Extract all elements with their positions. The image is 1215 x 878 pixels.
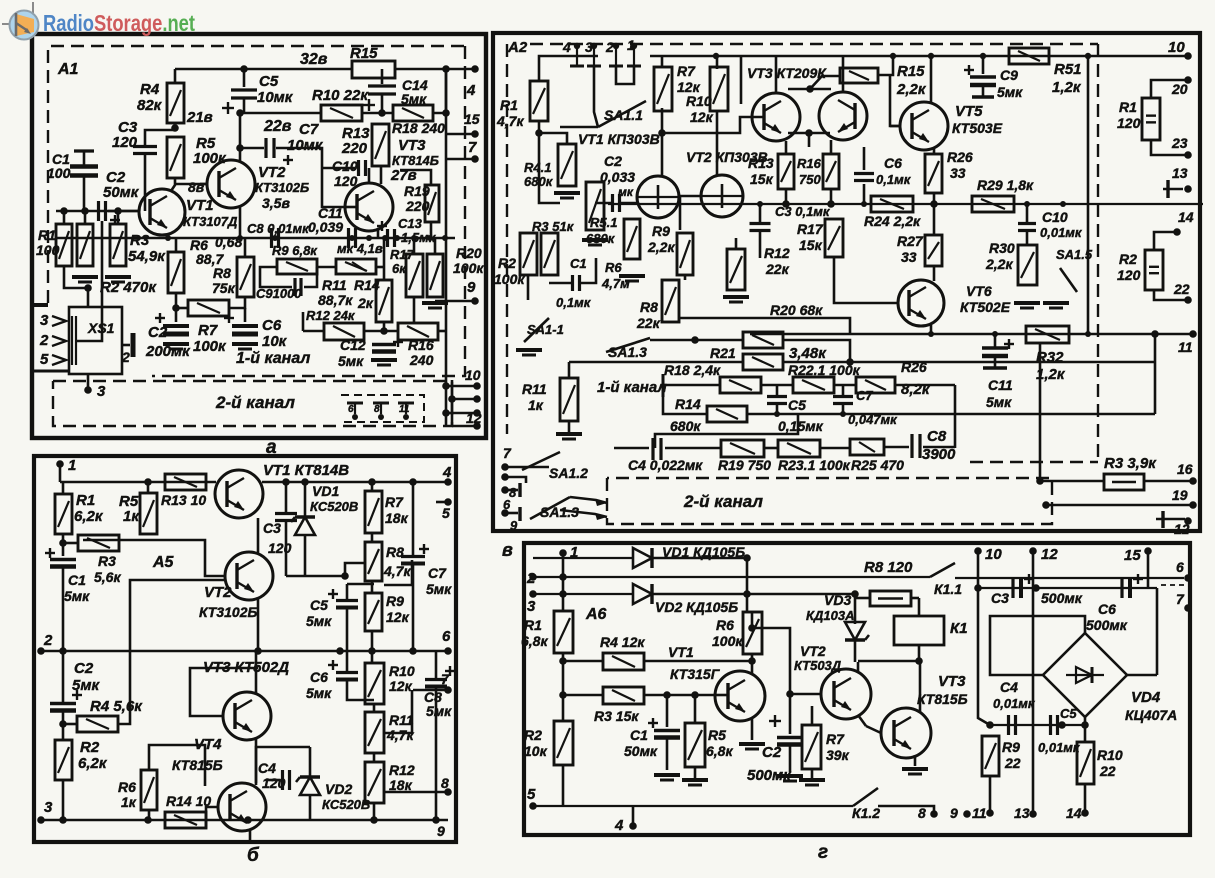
wire R1v top xyxy=(539,56,598,81)
terminal 8 panel b xyxy=(444,788,452,796)
svg-text:10мк: 10мк xyxy=(257,89,294,106)
svg-text:R2: R2 xyxy=(80,739,100,756)
ground under C2-200 xyxy=(163,344,189,349)
wire C9 down xyxy=(982,85,985,97)
wire C1v left xyxy=(549,282,572,285)
capacitor C6 panel a xyxy=(232,326,258,334)
svg-text:6,2к: 6,2к xyxy=(78,755,108,772)
wire bridge top xyxy=(1043,616,1085,633)
wire C2v left xyxy=(595,202,612,205)
svg-text:6: 6 xyxy=(348,404,354,415)
wire chain 2 xyxy=(371,581,374,593)
node R2-XS1 xyxy=(84,284,92,292)
wire R2v bottom xyxy=(527,275,530,300)
wire C3 stem xyxy=(285,482,288,512)
resistor R7 panel g xyxy=(802,725,821,769)
wire XS1 to C2 xyxy=(76,221,102,341)
plus sign C2 xyxy=(110,219,120,221)
junction v top bus xyxy=(928,53,934,59)
plus sign C7 xyxy=(283,159,293,161)
svg-text:5мк: 5мк xyxy=(997,84,1023,100)
terminal 2 top panel v xyxy=(613,43,619,49)
svg-text:КТ3102Б: КТ3102Б xyxy=(255,180,309,195)
svg-text:200мк: 200мк xyxy=(145,343,191,360)
svg-text:18к: 18к xyxy=(389,777,413,793)
wire C7v down xyxy=(842,404,845,414)
svg-text:2: 2 xyxy=(605,39,614,55)
svg-text:VT3: VT3 xyxy=(938,673,966,690)
resistor R9 panel v xyxy=(677,233,693,275)
wire caprow right xyxy=(1156,588,1159,675)
svg-text:2,2к: 2,2к xyxy=(896,81,927,98)
svg-text:11: 11 xyxy=(972,805,987,821)
svg-text:R19 750: R19 750 xyxy=(718,457,771,473)
wire R9 bottom link xyxy=(260,267,292,287)
wire C4 left xyxy=(266,779,280,782)
wire VT3g collector xyxy=(919,661,922,712)
wire R9 bottom xyxy=(684,275,687,280)
resistor R3 xyxy=(110,224,126,266)
svg-text:R11: R11 xyxy=(322,277,347,293)
svg-text:15: 15 xyxy=(1124,547,1141,564)
svg-text:7: 7 xyxy=(1176,591,1185,607)
svg-text:R3 15к: R3 15к xyxy=(594,708,639,724)
resistor R29 xyxy=(972,196,1014,212)
wire VT2b collector xyxy=(257,518,260,554)
svg-text:RadioStorage.net: RadioStorage.net xyxy=(43,10,195,36)
svg-text:2: 2 xyxy=(43,632,53,649)
wire vt34 mid xyxy=(808,133,811,147)
wire VD3 g bus3 ext xyxy=(747,593,855,596)
svg-text:2,2к: 2,2к xyxy=(647,239,675,255)
svg-text:8в: 8в xyxy=(188,179,205,195)
junction v mid bus xyxy=(861,201,867,207)
svg-text:R14 10: R14 10 xyxy=(166,793,211,809)
junction main bus xyxy=(366,235,372,241)
wire brow e xyxy=(923,446,955,449)
svg-text:5: 5 xyxy=(40,351,49,368)
svg-text:VT1: VT1 xyxy=(186,197,214,214)
node R1g-R3 xyxy=(559,691,567,699)
svg-text:22: 22 xyxy=(1173,281,1190,297)
wire t10 down xyxy=(978,551,990,725)
wire terminal 15 stub xyxy=(446,133,475,136)
wire R3 left xyxy=(63,542,78,545)
svg-text:1к: 1к xyxy=(123,508,140,525)
svg-text:КТ815Б: КТ815Б xyxy=(172,757,223,773)
svg-text:R3: R3 xyxy=(98,553,116,569)
resistor R7 panel b xyxy=(365,491,382,533)
svg-text:С3 0,1мк: С3 0,1мк xyxy=(775,204,831,219)
wire main bus xyxy=(56,237,455,239)
wire SA1.1 link xyxy=(560,126,598,129)
capacitor C2 panel b xyxy=(50,704,76,711)
wire R1g col xyxy=(562,553,565,611)
capacitor C13 xyxy=(388,229,395,247)
wire br1 xyxy=(446,385,477,388)
transistor VT3 panel b xyxy=(223,692,271,740)
capacitor C7 xyxy=(266,138,274,158)
wire VT5 collector xyxy=(930,56,933,102)
node R18 right xyxy=(442,109,450,117)
wire C3v stem xyxy=(759,204,762,223)
node br c1 xyxy=(442,409,450,417)
node row1 left xyxy=(691,336,699,344)
svg-text:120: 120 xyxy=(1117,267,1141,283)
wire terminal 3 drop xyxy=(594,66,598,127)
terminal 4 panel a xyxy=(471,65,479,73)
terminal 11 v xyxy=(1189,330,1197,338)
wire C14 stem xyxy=(381,69,384,84)
svg-text:32в: 32в xyxy=(300,51,328,68)
wire C7b bottom xyxy=(412,564,415,651)
svg-text:3: 3 xyxy=(585,39,593,55)
svg-text:R7: R7 xyxy=(385,494,404,510)
wire C5v stem xyxy=(776,385,779,396)
wire tap to R8 xyxy=(345,563,364,576)
wire R11 top xyxy=(568,362,571,378)
plus sign C7b xyxy=(419,548,429,550)
junction main bus xyxy=(349,235,355,241)
svg-text:3: 3 xyxy=(527,598,536,615)
svg-text:R1: R1 xyxy=(500,97,518,113)
svg-text:5,6к: 5,6к xyxy=(94,569,121,585)
wire VT1g emitter xyxy=(751,718,754,740)
junction v mid bus xyxy=(1060,201,1066,207)
node g9 xyxy=(963,810,971,818)
svg-text:SA1.2: SA1.2 xyxy=(549,465,588,481)
terminal 23 xyxy=(1184,151,1192,159)
resistor R19 panel v xyxy=(721,440,764,457)
svg-text:120: 120 xyxy=(262,775,286,791)
svg-text:VT5: VT5 xyxy=(955,103,983,120)
wire C6b top xyxy=(346,651,349,672)
svg-text:750: 750 xyxy=(799,172,821,187)
wire term8b xyxy=(505,489,518,492)
wire R4g right xyxy=(644,660,727,663)
wire vt4 top xyxy=(842,56,845,92)
wire terminal 2 drop xyxy=(616,66,634,84)
svg-text:R1: R1 xyxy=(76,492,95,509)
wire C10 left xyxy=(322,167,355,170)
wire C6v down xyxy=(863,184,866,204)
svg-text:VT3: VT3 xyxy=(398,137,426,154)
resistor R25 xyxy=(850,439,884,455)
wire fet2 drain xyxy=(716,110,719,175)
wire vt3-vt4 base rail xyxy=(788,88,831,91)
svg-text:22: 22 xyxy=(1004,755,1021,771)
wire R7 top xyxy=(661,56,664,68)
node c5 row4 xyxy=(774,411,780,417)
wire R10-R18 xyxy=(362,112,393,115)
resistor R4 xyxy=(167,83,184,123)
svg-text:R17: R17 xyxy=(797,221,824,237)
wire to R3 xyxy=(1040,480,1104,483)
logo globe icon xyxy=(2,2,39,40)
svg-text:VT3 КТ209К: VT3 КТ209К xyxy=(747,65,827,81)
wire R7 right xyxy=(229,297,245,308)
node R1-R3 xyxy=(59,539,67,547)
wire row2 right xyxy=(783,361,1155,364)
svg-text:6: 6 xyxy=(1176,559,1184,575)
wire after K12 xyxy=(878,806,934,814)
junction main bus xyxy=(394,235,400,241)
svg-text:50мк: 50мк xyxy=(103,184,140,201)
resistor R30 xyxy=(1018,245,1037,285)
resistor R2 panel v xyxy=(520,233,537,275)
svg-text:R29 1,8к: R29 1,8к xyxy=(977,177,1034,193)
capacitor C1 xyxy=(70,167,98,176)
svg-text:19: 19 xyxy=(1172,487,1188,503)
bar under C11v xyxy=(983,366,1007,370)
wire C14 down xyxy=(381,94,384,113)
svg-text:КТ3107Д: КТ3107Д xyxy=(183,214,238,229)
svg-text:R30: R30 xyxy=(989,240,1015,256)
trimmer dot xyxy=(352,414,358,420)
resistor R32 xyxy=(1026,326,1069,343)
svg-text:10: 10 xyxy=(985,546,1002,563)
wire R32 down xyxy=(1039,343,1042,481)
svg-text:С2: С2 xyxy=(762,744,782,761)
capacitor C2 panel v xyxy=(613,194,620,212)
resistor R16 panel v xyxy=(823,154,839,189)
node 628 xyxy=(748,624,756,632)
svg-text:6: 6 xyxy=(503,497,511,512)
wire R20 row xyxy=(680,318,850,334)
svg-text:К1.2: К1.2 xyxy=(852,805,880,821)
svg-text:1: 1 xyxy=(68,457,76,474)
wire R4 left xyxy=(63,723,77,726)
svg-text:12: 12 xyxy=(1174,521,1190,537)
svg-text:4,7м: 4,7м xyxy=(601,276,630,291)
wire R1 top stub xyxy=(63,211,66,224)
svg-text:8: 8 xyxy=(441,775,449,791)
terminal 6 bar xyxy=(518,507,521,521)
plus sign C3g xyxy=(1024,578,1034,580)
wire C5 to mid xyxy=(244,98,321,113)
module A1 dashed border xyxy=(48,46,465,303)
svg-text:14: 14 xyxy=(1066,805,1082,821)
svg-text:С2: С2 xyxy=(604,153,622,169)
terminal 15 panel a xyxy=(471,130,479,138)
wire VT1g base xyxy=(715,694,727,697)
svg-text:С5: С5 xyxy=(259,73,279,90)
node R1g-R4 xyxy=(559,657,567,665)
wire v low bus xyxy=(750,333,1193,335)
wire K1.2 arm xyxy=(853,788,878,806)
terminal 5 panel b xyxy=(444,498,452,506)
wire C2g stem xyxy=(789,694,792,734)
node br a1 xyxy=(442,382,450,390)
wire C10 down xyxy=(1026,231,1029,245)
resistor R3 panel g xyxy=(603,687,644,704)
capacitor C10 panel v xyxy=(1018,224,1036,231)
connector pin arrow 5 xyxy=(52,355,66,365)
wire term7 stub xyxy=(413,689,448,692)
wire VT3a emitter xyxy=(377,228,380,238)
ground under C12 xyxy=(371,360,397,365)
node R6-R7 xyxy=(172,304,180,312)
terminal 4 pin xyxy=(576,46,578,66)
svg-text:100: 100 xyxy=(36,242,60,258)
svg-text:R18 240: R18 240 xyxy=(392,120,445,136)
wire bias rail xyxy=(56,210,139,213)
svg-text:R10: R10 xyxy=(389,663,415,679)
terminal 2 g dot xyxy=(529,573,537,581)
wire SA1.3 arm xyxy=(606,338,650,352)
wire after K1.1 xyxy=(955,577,1184,579)
svg-text:R51: R51 xyxy=(1054,61,1082,78)
svg-text:R2: R2 xyxy=(498,255,516,271)
junction v top bus xyxy=(1085,53,1091,59)
junction v low bus xyxy=(992,331,998,337)
svg-text:120: 120 xyxy=(112,134,138,151)
svg-text:С1: С1 xyxy=(630,727,648,743)
wire C6 stem xyxy=(244,308,247,322)
svg-text:11: 11 xyxy=(399,404,410,415)
svg-text:13: 13 xyxy=(1172,165,1188,181)
node bottom b xyxy=(144,816,152,824)
svg-text:R9: R9 xyxy=(652,223,670,239)
svg-text:500мк: 500мк xyxy=(1086,617,1128,633)
panel b border xyxy=(34,456,456,842)
resistor R17 panel v xyxy=(825,219,843,257)
svg-text:0,15мк: 0,15мк xyxy=(778,418,824,434)
resistor R13 xyxy=(372,124,389,166)
svg-text:0,1мк: 0,1мк xyxy=(876,172,912,187)
wire C2b bottom xyxy=(62,711,65,740)
capacitor C12 xyxy=(372,345,396,352)
connector XS1 box xyxy=(69,307,122,374)
svg-text:R10: R10 xyxy=(686,93,712,109)
wire R41 top xyxy=(539,133,567,144)
resistor R11 panel v xyxy=(560,378,578,421)
wire g bus3 xyxy=(533,593,632,595)
wire C3 bottom xyxy=(285,521,288,576)
svg-text:С3: С3 xyxy=(991,590,1009,606)
terminal 4 panel b xyxy=(444,478,452,486)
ground under R4.1 xyxy=(554,193,580,198)
resistor R2 panel b xyxy=(55,740,72,780)
svg-text:R4: R4 xyxy=(140,81,160,98)
wire VT4 emitter xyxy=(249,829,252,842)
capacitor C7 panel v xyxy=(833,397,853,404)
wire row3 b xyxy=(761,384,793,387)
terminal 7 v xyxy=(501,463,509,471)
capacitor C6 panel v xyxy=(854,174,874,181)
terminal 22 xyxy=(1184,296,1192,304)
node VD12 xyxy=(743,590,751,598)
module A2 dashed border xyxy=(506,44,508,434)
svg-text:R9: R9 xyxy=(386,593,404,609)
resistor R19 panel a xyxy=(425,185,439,222)
svg-text:VT6: VT6 xyxy=(966,283,992,299)
junction v mid bus xyxy=(757,201,763,207)
svg-text:220: 220 xyxy=(341,140,368,157)
resistor R17 panel a xyxy=(406,254,423,297)
svg-text:КТ503Е: КТ503Е xyxy=(952,120,1003,136)
svg-text:5: 5 xyxy=(527,786,536,803)
capacitor C3 panel g xyxy=(1013,578,1021,598)
node br a2 xyxy=(473,382,481,390)
wire VT4b base xyxy=(206,807,218,828)
resistor R6 4.7m xyxy=(624,219,640,259)
plus sign C6a xyxy=(224,317,234,319)
svg-text:R4 5,6к: R4 5,6к xyxy=(90,698,143,715)
svg-text:С2: С2 xyxy=(74,660,94,677)
svg-text:С1: С1 xyxy=(68,572,86,588)
wire R1v bottom xyxy=(538,121,541,133)
svg-text:6,8к: 6,8к xyxy=(706,743,733,759)
svg-text:220: 220 xyxy=(405,198,430,214)
trimmer cap symbol xyxy=(347,402,363,405)
plus sign C6b xyxy=(328,664,338,666)
ground under R20b xyxy=(422,303,448,308)
svg-text:13: 13 xyxy=(1014,805,1030,821)
module 2nd channel v dashed box xyxy=(607,478,1052,524)
wire zener row xyxy=(286,575,345,578)
wire R12-C12 xyxy=(364,330,398,333)
wire base rail to R15 xyxy=(810,76,840,89)
resistor R8 panel g xyxy=(870,591,911,606)
svg-text:R8 120: R8 120 xyxy=(864,559,913,576)
svg-text:R7: R7 xyxy=(826,731,845,747)
wire VD3 top xyxy=(854,594,857,624)
node r16 bus xyxy=(827,200,835,208)
wire right rows vertical xyxy=(1154,334,1157,414)
wire C10 to base xyxy=(368,168,371,183)
svg-text:680к: 680к xyxy=(670,418,701,434)
wire VT5 emitter xyxy=(933,147,936,154)
junction main bus xyxy=(272,235,278,241)
terminal 11 g dot xyxy=(986,809,994,817)
transistor VT3 panel v xyxy=(752,93,800,141)
svg-text:R21: R21 xyxy=(710,345,736,361)
resistor R20b panel a xyxy=(427,254,443,297)
svg-text:С11: С11 xyxy=(988,377,1013,393)
wire R16 top xyxy=(830,140,833,154)
connector pin arrow 3 xyxy=(52,316,66,326)
wire gate bus xyxy=(539,133,560,203)
extra slash R11 xyxy=(352,262,366,271)
svg-text:R4 12к: R4 12к xyxy=(600,634,645,650)
svg-text:R2: R2 xyxy=(1119,251,1137,267)
wire R9g down xyxy=(989,776,992,813)
wire C9 stem xyxy=(982,56,985,74)
capacitor C8 panel b xyxy=(425,680,447,687)
plus sign C8b xyxy=(445,670,455,672)
resistor R8 panel b xyxy=(365,542,382,581)
wire R14 top xyxy=(383,238,386,280)
plus sign C2b xyxy=(72,694,82,696)
resistor R3 3.9k xyxy=(1104,474,1144,490)
wire C10 stem xyxy=(1026,204,1029,223)
svg-text:б: б xyxy=(247,845,260,866)
wire R17 bottom xyxy=(834,257,897,303)
svg-text:5мк: 5мк xyxy=(426,703,452,719)
resistor R14 panel b xyxy=(165,812,206,828)
wire VT6 emitter xyxy=(930,325,933,334)
node c7 row4 xyxy=(840,411,846,417)
wire R12v top xyxy=(735,238,738,249)
svg-text:4,7к: 4,7к xyxy=(496,113,524,129)
wire VT1 emitter xyxy=(167,234,170,238)
svg-text:R12: R12 xyxy=(764,245,790,261)
wire SA1-1 arm xyxy=(524,318,549,342)
capacitor C5 panel g xyxy=(1051,715,1058,735)
svg-text:0,01мк: 0,01мк xyxy=(1040,225,1083,240)
svg-text:С6: С6 xyxy=(310,669,328,685)
